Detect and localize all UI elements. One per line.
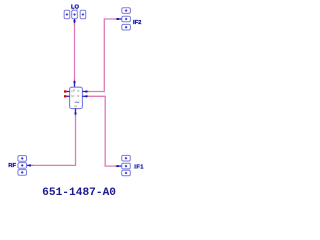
wire net IF2: U1 pin 6 to J-IF2 — [89, 19, 116, 92]
coax connector J-IF2 top pad — [122, 8, 131, 14]
wire net LO: J-LO to U1 top pin — [74, 24, 76, 80]
svg-text:IF1: IF1 — [134, 164, 144, 170]
coax connector J-RF bottom pad — [18, 170, 27, 176]
wire net IF1: U1 pin 5 to J-IF1 — [89, 96, 115, 166]
title text 651-1487-A0 — [42, 187, 116, 199]
coax connector J-LO left pad — [64, 10, 70, 19]
coax connector J-LO right pad — [80, 10, 86, 19]
J-RF pin stub with junction dot — [27, 164, 32, 166]
no-connect marker on pin 1 — [64, 90, 66, 92]
no-connect marker on pin 2 — [64, 95, 66, 97]
net label LO — [71, 5, 80, 11]
red junction mark at U1 pin 5 — [87, 96, 88, 97]
U1 bottom pin 4 stub with junction dot — [75, 109, 77, 115]
red junction mark at U1 top pin — [74, 80, 75, 81]
red junction mark at U1 pin 4 — [75, 115, 76, 116]
coax connector J-IF1 center pad — [122, 163, 131, 169]
coax connector J-IF1 bottom pad — [122, 170, 131, 176]
net label RF — [8, 163, 16, 169]
coax connector J-RF center pad — [18, 163, 27, 169]
wire net RF: U1 pin 4 to J-RF — [32, 116, 75, 166]
mixer U1 body — [70, 87, 83, 108]
J-IF2 pin stub with junction dot — [117, 18, 122, 20]
U1 left pin 1 stub (NC) — [66, 91, 69, 93]
svg-text:651-1487-A0: 651-1487-A0 — [42, 187, 116, 199]
coax connector J-LO center pad — [72, 10, 78, 19]
red junction mark at J-RF stub — [31, 165, 32, 166]
red junction mark at U1 pin 6 — [87, 91, 88, 92]
net label IF2 — [133, 20, 141, 26]
svg-text:RF: RF — [8, 163, 16, 169]
pin number marks above J-LO center pad — [73, 8, 78, 9]
U1 right pin 6 stub with junction dot — [82, 91, 87, 93]
U1 right pin 5 stub with junction dot — [82, 95, 87, 97]
red junction mark at J-IF1 stub — [115, 165, 116, 166]
coax connector J-IF2 bottom pad — [122, 24, 131, 30]
svg-text:IF2: IF2 — [133, 20, 141, 26]
red junction mark at J-LO stub end — [74, 23, 75, 24]
svg-text:RF: RF — [74, 104, 78, 108]
coax connector J-IF1 top pad — [122, 155, 131, 161]
coax connector J-RF top pad — [18, 156, 27, 162]
U1 pin number texts — [73, 89, 75, 92]
svg-text:IF: IF — [77, 94, 80, 98]
svg-text:IF: IF — [77, 89, 80, 93]
U1 reference mark (squiggle) — [75, 102, 79, 103]
U1 left pin 2 stub (NC) — [66, 95, 69, 97]
J-IF1 pin stub with junction dot — [116, 165, 122, 167]
U1 internal pin name labels — [71, 89, 78, 108]
coax connector J-IF2 center pad — [122, 16, 131, 22]
U1 top pin stub with junction dot — [74, 81, 76, 87]
net label IF1 — [134, 164, 144, 170]
pin stub of J-LO center pad — [74, 19, 76, 23]
red junction mark at J-IF2 stub — [115, 18, 116, 19]
svg-text:NC: NC — [71, 94, 75, 98]
